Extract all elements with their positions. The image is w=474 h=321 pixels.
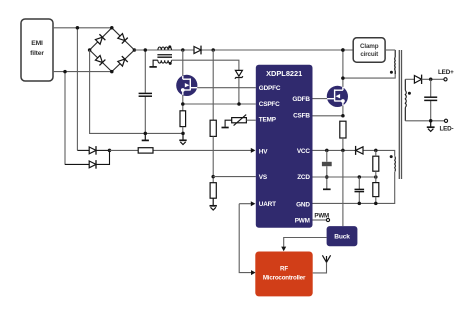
transformer T1 core	[399, 50, 401, 179]
wire L1 aux left lead	[153, 60, 158, 66]
node bridge DC plus	[133, 48, 137, 52]
diode D2 input	[65, 163, 89, 165]
diode D1 input	[77, 149, 89, 151]
wire bulk cap branch	[144, 50, 146, 133]
node GND R7	[374, 202, 378, 206]
wire Buck to RF micro	[284, 238, 327, 248]
svg-text:Microcontroller: Microcontroller	[263, 274, 306, 281]
wire Q1 source to CSPFC node	[182, 94, 184, 111]
wire L1 aux right lead to zener	[172, 60, 239, 70]
node ZCD divider tap	[374, 175, 378, 179]
wire AC top tap down to D1	[76, 28, 78, 151]
inductor L1 core	[157, 55, 172, 58]
capacitor C4 output	[424, 96, 437, 98]
node D1 D2 junction	[108, 149, 112, 153]
node bridge DC minus	[88, 48, 92, 52]
node T1 aux dot	[390, 155, 393, 158]
terminal PWM	[326, 218, 329, 221]
diode D3 PFC boost	[194, 47, 201, 54]
svg-text:EMI: EMI	[31, 40, 43, 47]
wire GDFB net	[313, 98, 328, 100]
svg-text:XDPL8221: XDPL8221	[266, 69, 302, 78]
node clamp bus tap	[341, 48, 345, 52]
resistor R7 divider lower	[373, 183, 379, 197]
ground at C1	[144, 133, 146, 139]
node T1 primary dot	[390, 71, 393, 74]
wire Q1 drain	[182, 50, 184, 77]
node T1 secondary dot	[408, 92, 411, 95]
resistor R4 HV series	[138, 148, 153, 153]
diode D5 output	[414, 76, 421, 84]
wire Q2 drain chain	[342, 50, 344, 88]
node Z1 on CSPFC	[237, 102, 241, 106]
capacitor C2 VCC filter	[322, 162, 332, 166]
terminal LED+	[444, 78, 447, 81]
svg-text:ZCD: ZCD	[297, 174, 310, 181]
wire GND rail	[313, 172, 395, 203]
node GND C3	[358, 202, 362, 206]
svg-text:filter: filter	[30, 50, 44, 57]
transistor Q1 PFC MOSFET	[176, 75, 197, 96]
node ZCD cap tap	[358, 175, 362, 179]
wire GDPFC net	[197, 87, 256, 89]
wire secondary top	[405, 78, 414, 80]
svg-text:circuit: circuit	[360, 51, 379, 58]
bridge diode BR1-d	[117, 56, 128, 67]
wire HV net	[110, 149, 252, 151]
inductor L1 aux winding	[158, 60, 172, 63]
wire UART link	[239, 204, 252, 273]
resistor R5 CSFB shunt	[340, 121, 346, 138]
wire primary return	[343, 71, 395, 78]
svg-text:CSPFC: CSPFC	[259, 101, 280, 108]
diode Z1 zener	[235, 70, 242, 76]
resistor R3 VS lower	[210, 183, 216, 199]
svg-text:UART: UART	[259, 201, 276, 208]
node L1 aux dot	[169, 62, 172, 65]
wire TEMP net	[246, 119, 255, 121]
wire output cap branch	[430, 79, 432, 121]
capacitor C3 ZCD	[355, 188, 365, 190]
transformer T1 aux winding	[394, 156, 397, 171]
node Q1 source CSPFC	[181, 102, 185, 106]
node RC on ZCD	[325, 175, 329, 179]
node bridge AC top	[110, 26, 114, 30]
diode D4 VCC	[356, 147, 363, 154]
clamp circuit block	[353, 38, 385, 62]
microcontroller U2 RF block	[255, 252, 312, 297]
node output cap bottom	[429, 119, 433, 123]
ground at L1 aux	[149, 66, 156, 68]
svg-text:CSFB: CSFB	[293, 112, 310, 119]
wire LED plus	[422, 78, 444, 80]
node AC top tap	[76, 26, 80, 30]
wire VS net	[213, 176, 256, 178]
node Q2 source CSFB	[341, 114, 345, 118]
wire HV dropper top	[212, 50, 214, 120]
node VCC divider tap	[374, 149, 378, 153]
node bus cap tap	[144, 48, 148, 52]
node boost diode anode bus tap	[181, 48, 185, 52]
wire AC line bottom	[53, 71, 112, 73]
wire divider mid	[375, 150, 377, 182]
transformer T1 primary	[394, 50, 396, 57]
wire VCC RC chain	[326, 150, 328, 188]
ground at C2	[323, 188, 331, 190]
op-amp U1 XDPL8221 controller	[256, 65, 313, 228]
inductor L1 PFC choke main winding	[158, 47, 172, 50]
svg-text:HV: HV	[259, 148, 268, 155]
wire DC-minus rail	[90, 50, 183, 133]
arrow into RF micro supply	[281, 247, 286, 252]
arrow into UART pin	[251, 201, 256, 206]
wire CSPFC net	[183, 103, 256, 105]
wire HV dropper to VS divider	[212, 136, 214, 182]
resistor R1 CS shunt	[180, 111, 186, 127]
arrow into RF micro UART	[251, 270, 256, 275]
node primary return junction	[341, 76, 345, 80]
bridge diode BR1-a	[95, 34, 106, 45]
svg-text:GDPFC: GDPFC	[259, 85, 281, 92]
svg-text:LED+: LED+	[438, 69, 454, 76]
wire Buck feed	[342, 150, 344, 226]
wire PWM stub	[313, 219, 327, 221]
svg-text:PWM: PWM	[314, 212, 329, 219]
wire VCC rail	[313, 150, 395, 156]
node R1 DC-minus	[181, 132, 185, 136]
node Q2 drain bus tap	[341, 48, 345, 52]
bridge diode BR1-b	[117, 33, 128, 44]
node AC bottom tap	[63, 70, 67, 74]
svg-text:PWM: PWM	[295, 217, 310, 224]
ground at R1	[182, 133, 184, 139]
svg-text:TEMP: TEMP	[259, 117, 277, 124]
ground at R3	[212, 198, 214, 205]
transformer T1 secondary	[404, 79, 406, 90]
node VS divider tap	[211, 175, 215, 179]
svg-text:VCC: VCC	[297, 148, 311, 155]
node bridge AC bottom	[110, 70, 114, 74]
svg-text:VS: VS	[259, 174, 268, 181]
node VCC RC tap	[325, 149, 329, 153]
ground at LED minus	[430, 121, 432, 127]
EMI filter block	[21, 19, 53, 81]
wire Q2 source	[342, 106, 344, 116]
node C1 to DC-minus	[144, 132, 148, 136]
wire AC line top	[53, 27, 112, 29]
wire RT1 left lead	[225, 120, 232, 127]
wire LED minus rail	[405, 120, 444, 122]
svg-text:GDFB: GDFB	[292, 96, 310, 103]
svg-text:Clamp: Clamp	[360, 43, 379, 50]
svg-text:Buck: Buck	[334, 234, 350, 241]
wire Z1 cathode to CSPFC	[238, 78, 240, 104]
node output cap top	[429, 78, 433, 82]
wire main DC bus	[134, 49, 353, 51]
bridge diode BR1-c	[95, 55, 106, 66]
resistor R6 divider upper	[373, 156, 379, 171]
node VCC R5 tap	[341, 149, 345, 153]
thermistor RT1	[232, 118, 247, 123]
regulator Buck block	[327, 226, 358, 246]
wire R1 to DC-minus	[182, 127, 184, 134]
ground at RT1	[222, 127, 229, 129]
terminal LED-	[444, 119, 447, 122]
wire ZCD cap leads	[358, 177, 360, 203]
wire ZCD net	[313, 176, 376, 178]
resistor R2 HV dropper	[210, 120, 216, 136]
svg-text:LED-: LED-	[440, 125, 454, 132]
wire antenna feed	[313, 262, 327, 273]
wire divider bottom	[375, 197, 377, 204]
transistor Q2 flyback MOSFET	[327, 86, 348, 107]
bridge rectifier BR1 frame	[90, 28, 135, 72]
antenna symbol	[322, 255, 330, 262]
wire clamp to primary	[385, 49, 395, 51]
svg-text:RF: RF	[280, 265, 288, 272]
wire AC bottom tap down to D2	[64, 72, 66, 165]
wire R5 to VCC rail	[342, 138, 344, 150]
arrow into HV pin	[251, 148, 256, 153]
wire CSFB net	[313, 115, 343, 117]
node L1 dot top	[168, 45, 171, 48]
capacitor C1 bulk	[139, 92, 152, 94]
node HV tap on bus	[211, 48, 215, 52]
svg-text:GND: GND	[296, 202, 310, 209]
